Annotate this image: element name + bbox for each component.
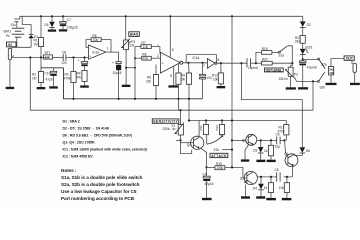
- svg-text:100μ16: 100μ16: [67, 26, 78, 30]
- svg-text:IC1 : NJM 13600 (marked with w: IC1 : NJM 13600 (marked with white color…: [63, 148, 148, 152]
- wire Q1 emitter down: [292, 166, 294, 177]
- wire LED node to S2b upper contact: [303, 58, 319, 60]
- svg-text:+: +: [112, 61, 114, 65]
- svg-text:+: +: [78, 58, 80, 62]
- label OUT LEVEL box: [265, 68, 284, 72]
- ground D3: [256, 160, 265, 162]
- resistor R6 IC1a load: [146, 65, 159, 99]
- svg-text:IC2 : NJM 4558 DV: IC2 : NJM 4558 DV: [63, 155, 94, 159]
- svg-text:10μ: 10μ: [275, 145, 281, 149]
- transistor Q2: [242, 134, 257, 145]
- svg-text:R19: R19: [262, 47, 268, 51]
- switch S1a: [278, 46, 293, 65]
- wire Q2 emitter to ground: [241, 145, 249, 162]
- resistor R23: [264, 140, 274, 159]
- svg-text:Q1- Q4 : 2SC 2785K: Q1- Q4 : 2SC 2785K: [63, 141, 96, 145]
- svg-text:470k: 470k: [64, 77, 71, 81]
- potentiometer P1 200k lin sensitivity: [163, 110, 185, 140]
- wire to P2 top: [291, 63, 293, 67]
- svg-text:C8: C8: [62, 51, 66, 55]
- svg-text:OUT: OUT: [346, 57, 354, 61]
- svg-text:47k: 47k: [76, 76, 82, 80]
- node bus junctions: [72, 98, 190, 100]
- wire +9V supply rail: [20, 15, 303, 17]
- svg-text:47μm6: 47μm6: [307, 65, 317, 69]
- resistor R8 to IC1a noninverting input: [134, 52, 160, 60]
- diode D2 zener LED feed: [300, 16, 311, 35]
- resistor R16: [215, 121, 225, 135]
- svg-text:R16: R16: [215, 125, 219, 131]
- wire P2 wiper to S2b lower contact: [295, 78, 319, 82]
- node bus dots: [179, 109, 181, 111]
- resistor R11: [199, 121, 209, 145]
- svg-text:ATTACK: ATTACK: [211, 154, 227, 158]
- ground P2: [286, 87, 296, 89]
- svg-text:-: -: [90, 46, 91, 50]
- svg-text:D4: D4: [253, 187, 257, 191]
- op-amp IC2a input buffer: [89, 45, 109, 59]
- wire IC1a bias pin from rail: [170, 16, 174, 57]
- svg-text:R20: R20: [262, 58, 268, 62]
- capacitor C6 series: [275, 133, 286, 149]
- switch S1c battery switch: [11, 16, 20, 28]
- resistor R15 100k: [207, 162, 243, 170]
- diode D4: [253, 177, 264, 196]
- svg-text:C4: C4: [203, 172, 207, 176]
- resistor R25: [279, 177, 290, 198]
- node C16 out: [255, 62, 257, 64]
- wire IC2a output: [106, 51, 119, 53]
- ground C10: [49, 86, 58, 88]
- resistor R4 bias lower: [76, 70, 87, 85]
- resistor R19 bypass branch: [256, 47, 279, 63]
- svg-text:LED1: LED1: [305, 45, 313, 49]
- svg-text:5: 5: [172, 48, 174, 52]
- resistor R9 sidechain feed: [180, 63, 192, 121]
- resistor R22 output pulldown: [329, 67, 335, 83]
- capacitor C11 10u16 coupling: [112, 52, 122, 99]
- svg-text:2k2: 2k2: [295, 40, 300, 44]
- svg-text:S1b: S1b: [214, 148, 220, 152]
- svg-text:10k: 10k: [93, 38, 99, 42]
- svg-text:1: 1: [107, 47, 109, 51]
- transistor Q3: [240, 171, 258, 184]
- diode D5 supply clamp: [45, 16, 55, 29]
- svg-text:100k: 100k: [216, 166, 223, 170]
- switch S2a upper lever: [318, 58, 327, 69]
- svg-text:IN: IN: [8, 43, 12, 47]
- svg-text:200k - lin: 200k - lin: [163, 127, 176, 131]
- svg-text:Q4: Q4: [187, 143, 191, 147]
- ground R12: [217, 86, 226, 88]
- svg-text:P2: P2: [294, 72, 298, 76]
- diode D1 reverse protection: [22, 16, 38, 47]
- svg-text:10k: 10k: [329, 71, 334, 75]
- ground R2: [37, 87, 46, 89]
- svg-text:D6 : RD 5.6 EB1 → ZPD 5V6 (500: D6 : RD 5.6 EB1 → ZPD 5V6 (500mW, 5.6V): [63, 134, 133, 138]
- svg-text:R11: R11: [199, 125, 203, 131]
- capacitor C9 47u bias: [78, 58, 88, 71]
- svg-text:47k: 47k: [143, 56, 149, 60]
- battery BAT1 9V: [4, 28, 25, 47]
- wire input bypass bus: [30, 58, 313, 111]
- ground R24: [266, 198, 276, 200]
- svg-text:D5: D5: [45, 23, 49, 27]
- wire Q3 collector row: [257, 176, 293, 178]
- svg-text:+: +: [89, 55, 91, 59]
- resistor R1 input pullup: [34, 16, 44, 57]
- svg-text:Q3: Q3: [240, 176, 244, 180]
- svg-text:S2a: S2a: [321, 62, 327, 66]
- op-amp IC1b: [203, 58, 220, 68]
- svg-text:D2: D2: [307, 23, 311, 27]
- wire P3 wiper tap to IC1a input node: [125, 67, 136, 69]
- wire IC1b output: [217, 62, 247, 64]
- wire reference bus thick: [64, 68, 203, 99]
- svg-text:Use a low leakage Capacitor fo: Use a low leakage Capacitor for C5: [61, 189, 137, 194]
- ground P3: [122, 85, 131, 87]
- capacitor C17 47um6: [299, 61, 316, 87]
- wire Q2 emitter row: [257, 139, 277, 141]
- svg-text:103: 103: [206, 76, 212, 80]
- transistor Q1: [284, 152, 298, 167]
- transistor Q4 sidechain: [187, 136, 204, 149]
- svg-text:BAT1: BAT1: [4, 30, 12, 34]
- resistor R2 bias: [32, 58, 44, 88]
- node rail junction dots: [40, 15, 233, 17]
- ground R25: [282, 198, 292, 200]
- svg-text:10k: 10k: [213, 78, 219, 82]
- svg-text:9V: 9V: [6, 34, 11, 38]
- ground input jack sleeve: [6, 60, 15, 89]
- svg-text:Part numbering according to PC: Part numbering according to PCB: [61, 196, 135, 201]
- svg-text:470k: 470k: [278, 130, 285, 134]
- wire R22 to jack tip: [331, 59, 352, 67]
- node input wire junctions: [29, 56, 42, 58]
- svg-text:3: 3: [157, 54, 159, 58]
- resistor R24: [264, 177, 274, 198]
- svg-text:IC1a: IC1a: [193, 56, 200, 60]
- resistor RT1 10k series input: [43, 51, 63, 59]
- svg-text:1M: 1M: [32, 77, 37, 81]
- wire to Q3 base: [243, 167, 247, 178]
- svg-text:1k: 1k: [264, 186, 268, 190]
- svg-text:22n: 22n: [62, 61, 68, 65]
- switch S2b lower lever: [319, 72, 325, 89]
- svg-text:1M: 1M: [34, 43, 39, 47]
- svg-text:S1a: S1a: [278, 54, 284, 58]
- node P1 bottom: [179, 139, 181, 141]
- capacitor C16 10u output coupling: [247, 58, 261, 70]
- capacitor C5 series: [275, 168, 281, 182]
- diode D6 zener: [294, 147, 310, 155]
- wire bypass bus up from P2 wiper line: [312, 81, 314, 110]
- svg-text:8: 8: [218, 58, 220, 62]
- ground Q3 emitter: [241, 185, 250, 199]
- svg-text:D1 : 6RA 2: D1 : 6RA 2: [63, 120, 80, 124]
- wire long vertical rail to sidechain: [231, 16, 233, 167]
- op-amp IC1a OTA: [157, 44, 199, 73]
- svg-text:7: 7: [203, 64, 205, 68]
- svg-text:S2a, S2b is a double pole foot: S2a, S2b is a double pole footswitch: [61, 182, 140, 187]
- svg-text:8: 8: [170, 74, 172, 78]
- LED LED1 indicator: [300, 45, 313, 60]
- potentiometer P2 10k lin out level: [279, 67, 299, 87]
- diode D3: [253, 140, 263, 159]
- svg-text:Notes :: Notes :: [61, 168, 77, 173]
- svg-text:1k: 1k: [264, 149, 268, 153]
- svg-text:22k: 22k: [146, 80, 152, 84]
- wire feedback loop IC1b: [186, 55, 216, 64]
- wire Q2 base from supply vertical: [231, 139, 246, 141]
- wire battery to input jack ring: [12, 47, 31, 48]
- svg-text:10k: 10k: [143, 45, 149, 49]
- ground R22: [326, 83, 337, 85]
- capacitor C8 22n input coupling: [62, 51, 89, 66]
- jack IN input: [7, 42, 48, 60]
- parts list text block: [61, 120, 148, 202]
- label ATTACK box: [210, 153, 228, 158]
- ground IC1a pin 8: [168, 66, 178, 88]
- label BIAS box: [129, 32, 140, 37]
- wire IC1a input node vertical: [134, 47, 136, 99]
- svg-text:SENSITIVITY: SENSITIVITY: [153, 120, 178, 124]
- resistor R5 feedback IC2a: [86, 34, 111, 52]
- svg-text:D3: D3: [253, 149, 257, 153]
- wire S1b common to supply vertical: [222, 149, 233, 151]
- resistor R20 in line: [261, 58, 292, 65]
- resistor R10 to thick bus: [176, 64, 181, 110]
- capacitor C7 100u16 supply filter: [60, 16, 78, 29]
- svg-text:C7: C7: [67, 18, 71, 22]
- svg-text:D2 - D5 : 1S 1588 → 1N 4148: D2 - D5 : 1S 1588 → 1N 4148: [63, 127, 109, 131]
- svg-text:47μ6: 47μ6: [46, 78, 53, 82]
- svg-text:S1a, S1b is a double pole slid: S1a, S1b is a double pole slide switch: [61, 175, 143, 180]
- svg-text:S2b: S2b: [319, 85, 325, 89]
- svg-text:+: +: [162, 62, 164, 66]
- jack OUT output: [344, 56, 356, 83]
- wire IC1a output: [183, 62, 208, 64]
- ground R4: [80, 85, 89, 87]
- svg-text:BIAS: BIAS: [130, 33, 139, 37]
- resistor R17: [278, 121, 289, 141]
- wire P1 bottom to Q4 base: [181, 142, 194, 144]
- ground C4: [202, 198, 212, 200]
- svg-text:C10: C10: [45, 71, 51, 75]
- ground C7: [59, 29, 67, 31]
- svg-text:22k: 22k: [129, 44, 135, 48]
- capacitor C13 103: [200, 63, 212, 99]
- resistor R21 LED series: [295, 35, 305, 49]
- wire sidechain supply line: [188, 119, 286, 136]
- resistor R7 to IC1a inverting input: [135, 41, 160, 54]
- wire bypass line IC1b to D6: [241, 63, 302, 147]
- switch S1b attack select: [207, 135, 223, 152]
- svg-text:OUT LEVEL: OUT LEVEL: [266, 68, 282, 72]
- capacitor C10 47u bias decouple: [41, 68, 64, 87]
- node C8 output junction: [72, 56, 85, 58]
- wire P1 bottom loop to Q4 emitter area: [176, 140, 192, 153]
- svg-text:47μ16: 47μ16: [205, 182, 214, 186]
- wire to Q1 base: [285, 140, 288, 156]
- svg-text:2: 2: [157, 44, 159, 48]
- svg-text:10k lin: 10k lin: [279, 77, 288, 81]
- ground C17: [298, 87, 308, 89]
- svg-text:10μm6: 10μm6: [248, 66, 258, 70]
- ground OUT jack: [350, 83, 360, 85]
- trimmer P3 22k bias: [121, 16, 135, 84]
- svg-text:10μ16: 10μ16: [113, 71, 122, 75]
- svg-text:Q1: Q1: [284, 152, 288, 156]
- svg-text:-: -: [162, 54, 163, 58]
- svg-text:10k: 10k: [45, 56, 51, 60]
- resistor R12 IC1b ground leg: [212, 63, 224, 86]
- ground D5: [48, 30, 56, 32]
- capacitor C4 47u16 attack: [203, 167, 214, 197]
- svg-text:IC2a: IC2a: [92, 51, 99, 55]
- svg-text:C5: C5: [275, 168, 279, 172]
- svg-text:10k: 10k: [279, 186, 285, 190]
- ground R23: [267, 160, 276, 162]
- resistor R3 bias divider: [64, 58, 77, 99]
- svg-text:D6: D6: [306, 149, 310, 153]
- ground D4: [256, 196, 265, 198]
- label SENSITIVITY box: [152, 119, 179, 124]
- svg-text:S1c: S1c: [11, 23, 17, 27]
- wire Q4 emitter down: [201, 148, 208, 168]
